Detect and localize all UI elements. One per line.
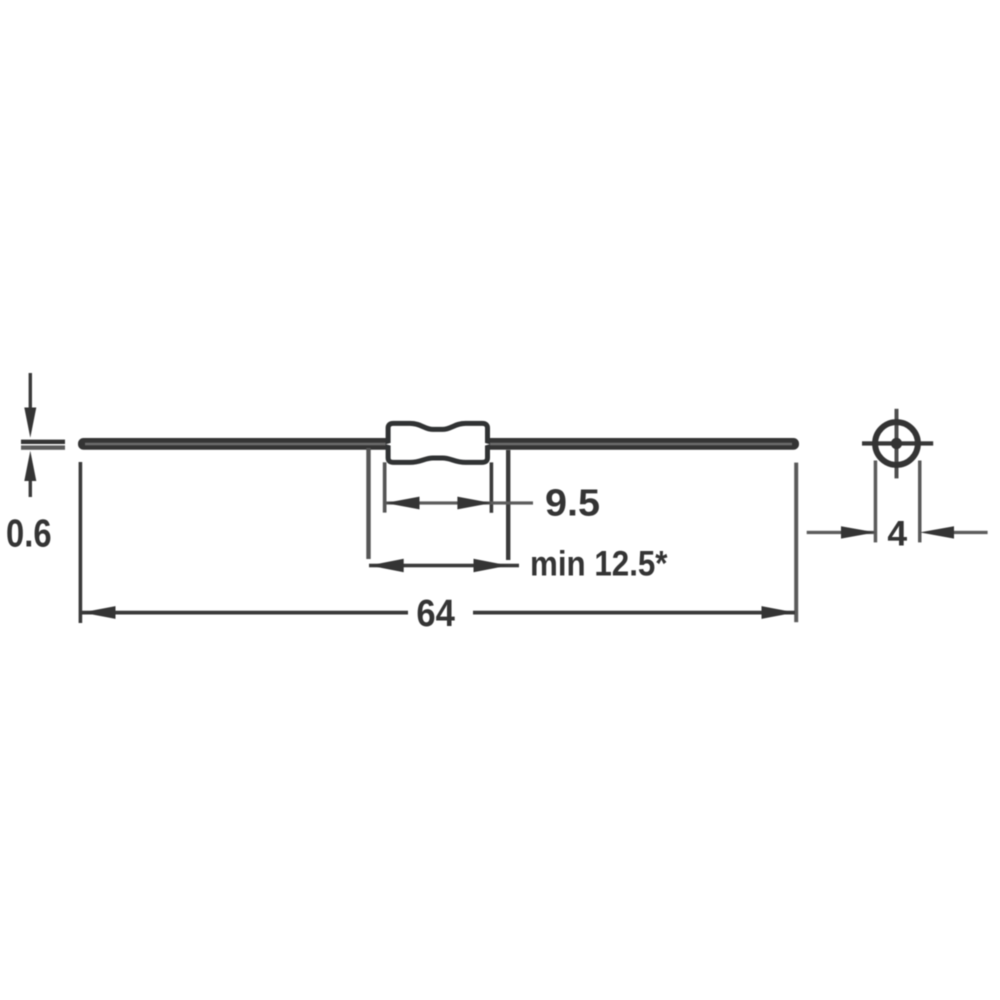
- end view crosshair horizontal: [862, 441, 933, 445]
- extension line 4 right: [918, 461, 922, 543]
- svg-text:9.5: 9.5: [545, 483, 600, 525]
- dimension 0.6 lower arrowhead: [24, 451, 36, 481]
- svg-text:64: 64: [416, 593, 455, 635]
- dimension 9.5 right arrowhead: [457, 497, 491, 510]
- extension line 9.5 left: [383, 462, 387, 512]
- extension line 64 left: [79, 462, 83, 623]
- dimension min12.5 left arrowhead: [369, 559, 404, 572]
- dimension 4 right arrowhead: [920, 526, 954, 538]
- svg-text:0.6: 0.6: [6, 513, 52, 556]
- dimension 0.6 upper leader line: [29, 373, 32, 408]
- extension line 64 right: [794, 463, 798, 623]
- end view crosshair vertical: [895, 409, 899, 479]
- dimension 9.5 left arrowhead: [386, 497, 420, 510]
- dimension 64 right arrowhead: [762, 606, 796, 619]
- dimension 0.6 upper arrowhead: [24, 408, 36, 438]
- end view center dot: [891, 438, 902, 449]
- wire (axial lead, left segment + full bar): [78, 438, 799, 450]
- dimension 4 left arrowhead: [841, 526, 875, 538]
- wire-body junction notch left: [386, 443, 392, 446]
- dimension 64 left shaft: [82, 611, 408, 615]
- svg-text:min 12.5*: min 12.5*: [530, 545, 668, 584]
- dimension min12.5 right arrowhead: [474, 559, 509, 572]
- dimension 4 left shaft: [807, 531, 876, 534]
- dimension 64 right shaft: [473, 611, 795, 615]
- dimension 4 right shaft: [954, 531, 988, 534]
- dimension 0.6 lower leader line: [29, 481, 32, 497]
- end view ring: [875, 422, 918, 465]
- svg-text:4: 4: [887, 514, 907, 554]
- lead diameter reference bar (bottom): [21, 445, 65, 449]
- wire-body junction notch right: [484, 443, 490, 446]
- extension line 4 left: [874, 461, 878, 543]
- lead diameter reference bar (top): [21, 440, 65, 444]
- extension line min12.5 right: [506, 450, 510, 560]
- extension line 9.5 right: [490, 462, 494, 512]
- dimension min12.5 shaft: [369, 564, 519, 568]
- dimension 64 left arrowhead: [82, 606, 116, 619]
- extension line min12.5 left: [366, 448, 370, 559]
- dimension 9.5 shaft: [386, 501, 534, 504]
- component body (dog-bone outline): [388, 423, 487, 462]
